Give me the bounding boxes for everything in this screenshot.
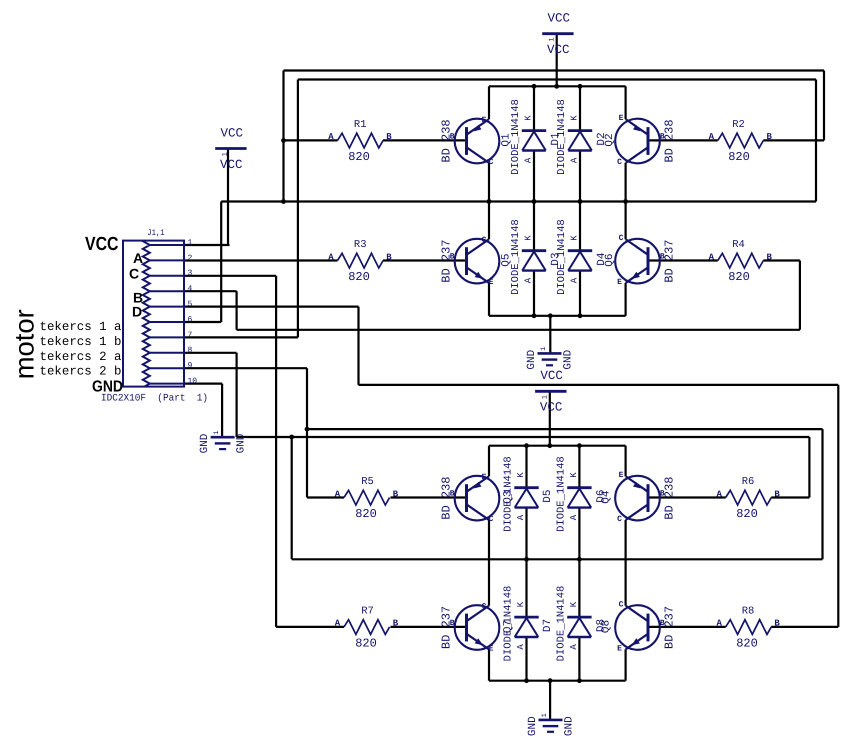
svg-text:8: 8 [188,346,193,355]
svg-text:DIODE_1N4148: DIODE_1N4148 [510,219,522,295]
svg-text:BD 238: BD 238 [662,119,676,162]
svg-text:B: B [766,252,772,262]
svg-text:VCC: VCC [540,401,563,415]
svg-text:A: A [516,644,526,650]
svg-text:1: 1 [222,152,230,156]
svg-text:C: C [617,158,622,167]
svg-text:DIODE_1N4148: DIODE_1N4148 [555,456,567,532]
svg-text:D8: D8 [595,619,607,632]
svg-text:1: 1 [549,37,557,41]
svg-text:A: A [569,514,579,520]
svg-text:C: C [619,601,624,610]
svg-text:motor: motor [10,309,40,379]
svg-text:1: 1 [213,430,221,434]
svg-text:K: K [569,601,579,607]
svg-text:tekercs 1 b: tekercs 1 b [40,335,122,349]
svg-text:A: A [716,619,722,629]
svg-text:K: K [516,601,526,607]
svg-text:9: 9 [188,362,193,371]
svg-text:A: A [335,489,341,499]
svg-text:820: 820 [736,636,758,650]
svg-text:D7: D7 [542,619,554,632]
svg-text:R6: R6 [742,476,755,488]
svg-text:BD 237: BD 237 [439,606,453,649]
svg-text:K: K [569,472,579,478]
svg-text:D: D [132,304,142,320]
svg-text:B: B [774,489,780,499]
svg-text:J1,1: J1,1 [147,228,165,238]
svg-text:K: K [524,235,534,241]
svg-text:A: A [516,514,526,520]
svg-text:tekercs 2 b: tekercs 2 b [40,365,122,379]
svg-text:B: B [393,619,399,629]
svg-text:D2: D2 [596,132,608,145]
svg-text:E: E [482,116,487,125]
svg-text:A: A [570,277,580,283]
svg-text:R4: R4 [732,239,745,251]
svg-text:R3: R3 [354,239,367,251]
svg-text:820: 820 [728,270,750,284]
svg-text:A: A [328,132,334,142]
svg-text:DIODE_1N4148: DIODE_1N4148 [556,99,568,175]
svg-text:K: K [516,472,526,478]
svg-text:1: 1 [542,395,550,399]
svg-text:A: A [133,250,143,266]
svg-text:A: A [335,619,341,629]
svg-text:R5: R5 [361,476,374,488]
svg-text:E: E [489,645,494,654]
svg-text:C: C [489,158,494,167]
svg-text:R1: R1 [354,119,367,131]
svg-text:GND: GND [564,716,576,736]
svg-text:D4: D4 [596,252,608,266]
svg-text:3: 3 [188,269,193,278]
svg-text:C: C [129,266,139,282]
svg-text:A: A [569,644,579,650]
svg-text:R2: R2 [732,119,745,131]
svg-text:VCC: VCC [85,234,119,255]
svg-text:R8: R8 [742,606,755,618]
svg-text:DIODE_1N4148: DIODE_1N4148 [510,99,522,175]
svg-text:VCC: VCC [547,12,570,26]
svg-text:C: C [482,603,487,612]
svg-text:VCC: VCC [547,43,570,57]
svg-text:tekercs 1 a: tekercs 1 a [40,320,122,334]
svg-text:BD 238: BD 238 [439,119,453,162]
svg-text:C: C [482,236,487,245]
svg-text:B: B [766,132,772,142]
svg-text:4: 4 [188,285,193,294]
svg-text:BD 237: BD 237 [439,239,453,282]
svg-text:5: 5 [188,300,193,309]
svg-text:GND: GND [527,716,539,736]
svg-text:GND: GND [526,349,538,369]
svg-text:DIODE_1N4148: DIODE_1N4148 [502,456,514,532]
svg-text:A: A [709,252,715,262]
svg-text:GND: GND [236,433,248,453]
svg-text:C: C [619,234,624,243]
svg-text:DIODE_1N4148: DIODE_1N4148 [502,586,514,662]
svg-text:820: 820 [355,507,377,521]
svg-text:1: 1 [540,347,548,351]
svg-text:A: A [709,132,715,142]
svg-text:R7: R7 [361,606,374,618]
svg-text:GND: GND [563,349,575,369]
svg-text:BD 237: BD 237 [662,606,676,649]
svg-text:6: 6 [188,315,193,324]
svg-text:K: K [524,115,534,121]
svg-text:C: C [617,515,622,524]
svg-text:820: 820 [348,270,370,284]
svg-text:B: B [774,619,780,629]
svg-text:7: 7 [188,331,193,340]
svg-text:E: E [619,471,624,480]
svg-text:A: A [524,157,534,163]
svg-text:VCC: VCC [220,158,243,172]
svg-text:E: E [617,278,622,287]
svg-text:820: 820 [728,150,750,164]
svg-text:A: A [328,252,334,262]
svg-text:1: 1 [188,238,193,247]
svg-text:A: A [524,277,534,283]
svg-text:DIODE_1N4148: DIODE_1N4148 [555,586,567,662]
svg-text:10: 10 [188,377,198,386]
svg-text:DIODE_1N4148: DIODE_1N4148 [556,219,568,295]
svg-text:2: 2 [188,254,193,263]
svg-text:B: B [386,132,392,142]
svg-text:C: C [489,515,494,524]
svg-text:B: B [393,489,399,499]
svg-text:GND: GND [92,379,123,396]
svg-text:tekercs 2 a: tekercs 2 a [40,350,122,364]
svg-text:D6: D6 [595,489,607,502]
svg-text:E: E [489,278,494,287]
svg-text:820: 820 [355,636,377,650]
svg-text:VCC: VCC [540,369,563,383]
svg-text:BD 237: BD 237 [662,239,676,282]
svg-text:BD 238: BD 238 [662,476,676,519]
svg-text:K: K [570,235,580,241]
svg-text:E: E [617,645,622,654]
svg-text:1: 1 [541,713,549,717]
svg-text:E: E [482,473,487,482]
svg-text:E: E [619,114,624,123]
svg-text:GND: GND [199,433,211,453]
svg-text:A: A [716,489,722,499]
svg-text:BD 238: BD 238 [439,476,453,519]
svg-text:A: A [570,157,580,163]
svg-text:D5: D5 [542,489,554,502]
svg-text:820: 820 [348,150,370,164]
svg-text:B: B [386,252,392,262]
svg-text:K: K [570,115,580,121]
svg-text:820: 820 [736,507,758,521]
svg-text:VCC: VCC [220,126,243,140]
